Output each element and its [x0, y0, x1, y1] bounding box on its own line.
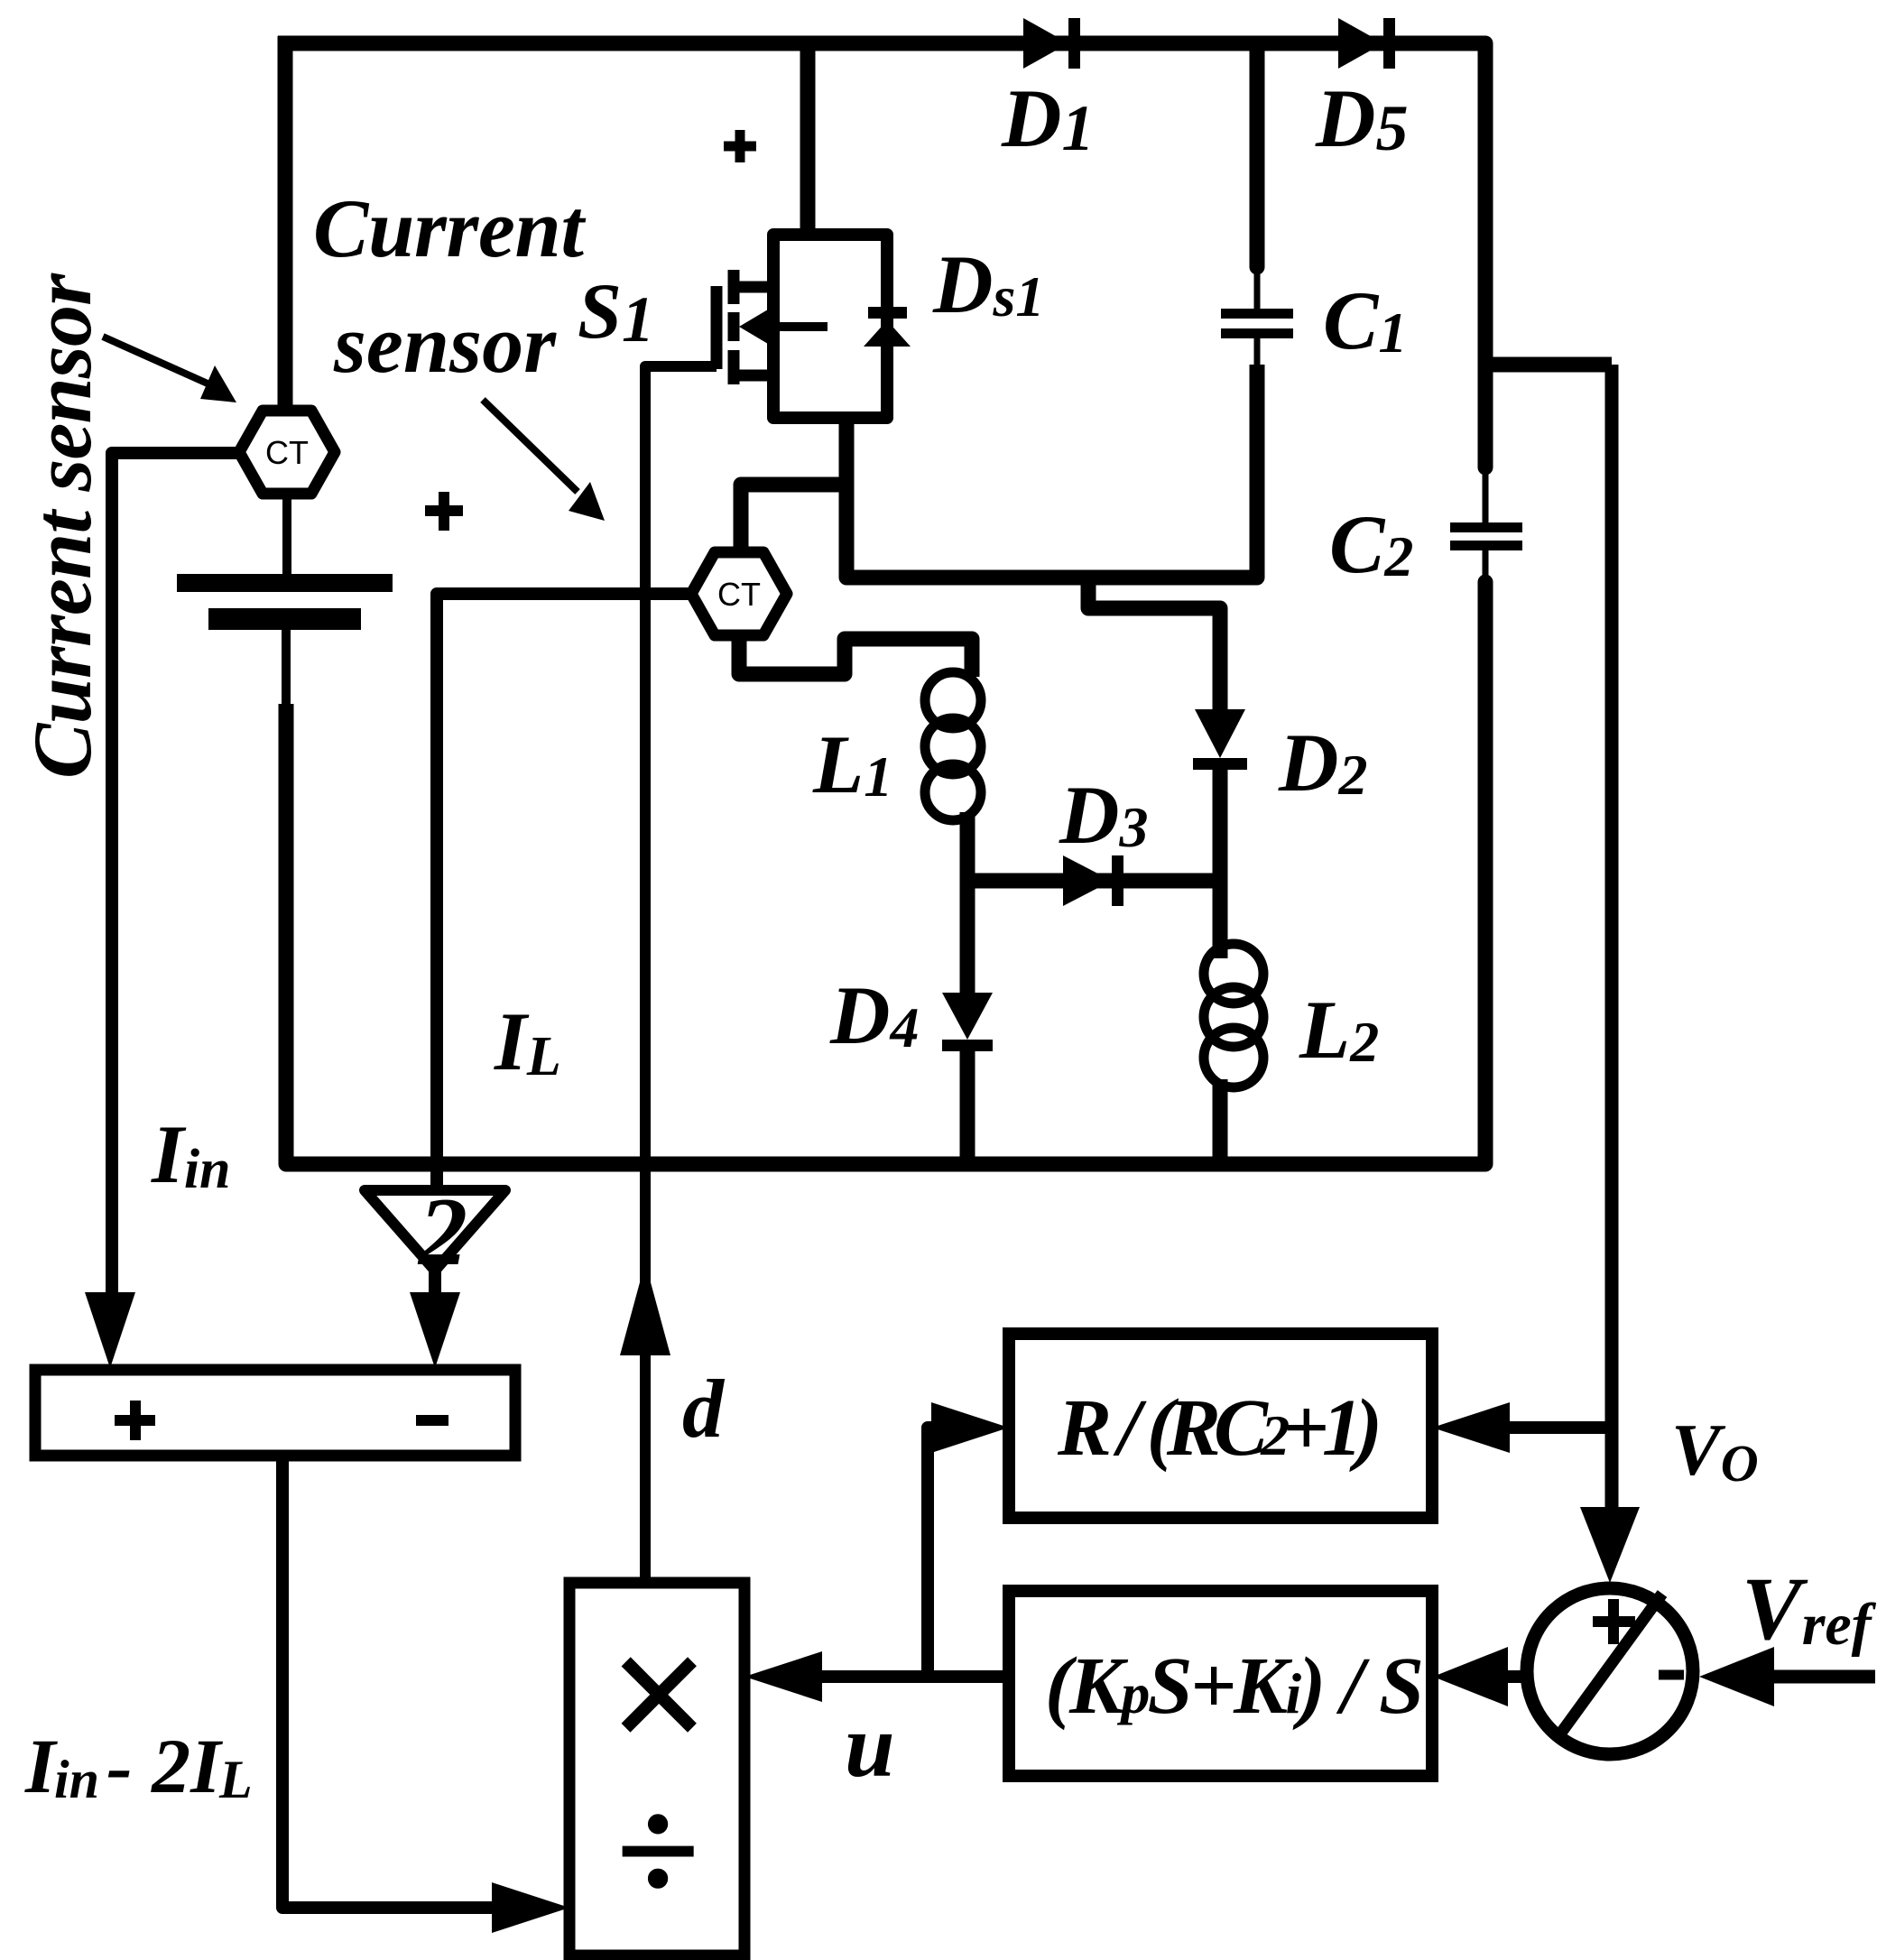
inductor L1 — [925, 672, 981, 820]
wire Vref input — [1760, 1670, 1875, 1684]
arrow Iin into summer — [85, 1292, 135, 1368]
arrow d upward — [620, 1262, 670, 1355]
capacitor C1 — [1221, 263, 1293, 368]
wire triangle to arrow — [429, 1271, 441, 1299]
diode Ds1 (body diode) — [864, 307, 911, 347]
svg-text:Current: Current — [313, 182, 586, 274]
multiplier-divider block — [569, 1583, 744, 1955]
arrow 2IL into summer — [410, 1292, 460, 1368]
svg-text:×: × — [606, 1595, 708, 1795]
transistor S1 (MOSFET) body rectangle — [773, 235, 887, 418]
gain triangle 2 — [365, 1179, 505, 1286]
diode D1 — [1023, 18, 1080, 69]
svg-text:R / (RC2+1): R / (RC2+1) — [1057, 1383, 1382, 1473]
wire CT2 bottom staircase to L1 — [739, 632, 972, 677]
label + (battery) — [425, 492, 463, 531]
diode D4 — [942, 993, 993, 1051]
svg-text:(KpS+Ki) / S: (KpS+Ki) / S — [1045, 1641, 1424, 1731]
block (KpS+Ki)/S — [1009, 1591, 1432, 1776]
wire output node horizontal y404 — [1485, 357, 1612, 373]
arrow u into R block — [931, 1402, 1009, 1453]
svg-text:CT: CT — [265, 434, 309, 471]
svg-text:2: 2 — [417, 1179, 467, 1286]
wire D3 horizontal — [967, 874, 1220, 889]
diode D5 — [1338, 18, 1395, 69]
wire C1 bottom + horizontal to MOSFET source — [846, 365, 1257, 578]
transistor S1 drain/source connections — [734, 287, 774, 375]
wire D4 to bottom rail — [960, 1045, 975, 1171]
wire u line from PI to divider — [802, 1670, 1009, 1683]
arrow Vo into R block — [1432, 1402, 1510, 1453]
wire battery bottom lead — [279, 704, 294, 1164]
summer block plus-minus — [35, 1370, 515, 1456]
wire bottom rail with C2 right side — [286, 582, 1485, 1164]
arrow Vo into summing circle — [1580, 1507, 1640, 1583]
wire Vo vertical — [1605, 365, 1619, 1509]
summing circle — [1527, 1588, 1693, 1754]
wire MOSFET drain to top rail — [800, 43, 816, 236]
wire circle to PI block — [1498, 1670, 1527, 1683]
wire D2 to D3 junction to L2 — [1213, 763, 1228, 958]
label + (drain) — [724, 130, 756, 162]
diode D3 — [1063, 855, 1123, 906]
annotation arrow to CT2 — [483, 400, 605, 521]
current sensor CT1 leads — [286, 495, 287, 711]
capacitor C2 — [1450, 464, 1522, 587]
svg-text:d: d — [682, 1363, 726, 1455]
wire left input vertical — [278, 36, 293, 406]
wire summer output to divider — [282, 1456, 495, 1908]
wire CT2 tap from source line — [741, 485, 846, 556]
wire C2 top thick — [1478, 43, 1493, 467]
svg-text:Current sensor: Current sensor — [16, 273, 108, 779]
wire Vo feedback to R block — [1498, 1421, 1612, 1434]
svg-text:u: u — [845, 1696, 895, 1796]
block R/(RC2+1) — [1009, 1334, 1432, 1518]
battery V1 plates — [177, 574, 393, 630]
diode D2 — [1193, 709, 1247, 770]
wire C1 top lead — [1250, 43, 1265, 267]
wire Iin sense from CT1 — [112, 453, 241, 1296]
wire IL sense from CT2 to gain triangle — [437, 594, 689, 1190]
svg-text:÷: ÷ — [615, 1766, 698, 1936]
wire top rail — [278, 36, 1485, 51]
current sensor CT2 — [691, 552, 787, 635]
arrow Vref into circle — [1699, 1647, 1774, 1706]
inductor L2 — [1204, 944, 1263, 1087]
wire L2 bottom to rail — [1213, 1079, 1228, 1171]
arrow into divider left — [492, 1882, 569, 1933]
svg-text:CT: CT — [717, 576, 761, 613]
transistor S1 body arrow — [739, 307, 828, 347]
arrow into PI block — [1433, 1647, 1508, 1706]
current sensor CT1 — [239, 411, 335, 494]
arrow u into divider — [744, 1651, 822, 1702]
transistor S1 channel dashes — [728, 270, 740, 384]
transistor S1 gate bar — [711, 286, 723, 369]
annotation arrow to CT1 — [103, 337, 236, 402]
svg-text:sensor: sensor — [333, 298, 557, 390]
wire L1 bottom to D3/D4 junction — [960, 812, 975, 996]
wire D2 branch from output node — [1088, 585, 1220, 713]
wire u branch up to R block — [928, 1428, 938, 1677]
wire d gate drive — [645, 366, 717, 1583]
